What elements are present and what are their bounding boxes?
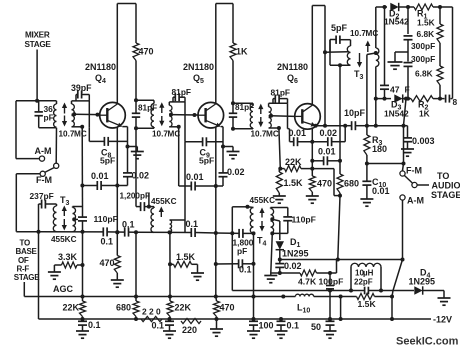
wire - riser busA to -12V bus: [340, 297, 342, 320]
wire - 0.01 bypass line Q5: [179, 185, 192, 187]
capacitor 81pF (module3 primary): [232, 103, 234, 113]
coil 10uH (top edge of trap): [351, 263, 381, 267]
resistor 680 (det return): [339, 161, 341, 174]
wire - -12V bus (y=319): [39, 318, 432, 320]
switch pole: [412, 182, 417, 187]
wire - tower3 right leg down to emitter wire: [324, 52, 326, 125]
tuning arrows T4: [261, 212, 263, 218]
svg-text:5pF: 5pF: [199, 156, 214, 166]
svg-text:100pF: 100pF: [319, 277, 344, 287]
wire - Q5 collector continuation down: [215, 127, 217, 186]
coil - secondary module3: [269, 107, 272, 128]
svg-text:0.01: 0.01: [318, 147, 336, 157]
wire - tower 1 top loop (Q4 collector feed): [117, 3, 136, 5]
svg-text:470: 470: [139, 47, 154, 57]
ground below 470 Q6: [311, 192, 313, 196]
svg-text:µH: µH: [363, 269, 374, 278]
ground below 1.5K Q6: [273, 195, 286, 197]
capacitor 81pF (top of module2 secondary): [172, 97, 174, 102]
svg-text:100: 100: [259, 321, 274, 331]
capacitor 100 (bus): [253, 319, 255, 321]
svg-text:1N295: 1N295: [282, 249, 309, 259]
resistor R3 180: [365, 124, 369, 128]
wire - Q5 emitter ground tee: [223, 146, 233, 148]
ground below C10: [360, 198, 373, 200]
coil - primary module3: [250, 106, 253, 128]
resistor R2 1K: [411, 96, 433, 102]
emitter Q6: [302, 122, 311, 125]
wire - AGC bus (y=296.5): [24, 296, 295, 298]
svg-text:F-M: F-M: [406, 166, 422, 176]
capacitor 0.1 (d): [238, 259, 240, 268]
wire - det secondary bottom riser down: [375, 67, 377, 99]
capacitor 39pF (top of secondary): [75, 95, 77, 101]
wire - 0.1 lower edge 1800 box: [216, 263, 239, 265]
svg-text:0.01: 0.01: [91, 171, 109, 181]
capacitor 0.02 (Q4 emitter): [127, 147, 129, 173]
capacitor 0.02 Q6: [327, 137, 329, 146]
T3 secondary box: [72, 207, 74, 208]
10uH 22pF parallel trap box: [349, 289, 353, 293]
wire - module2 secondary bottom down: [177, 125, 181, 129]
capacitor 5pF: [329, 40, 331, 52]
svg-text:8: 8: [453, 97, 458, 107]
svg-text:MC: MC: [74, 129, 87, 138]
emitter Q4: [107, 120, 118, 125]
coil - 1200pF module secondary (half): [170, 220, 172, 232]
wire - A-M contact down to AM det line: [402, 200, 404, 259]
wire - T4 feed from 1800 node: [231, 207, 233, 234]
capacitor 81pF (top of module3 secondary): [272, 99, 274, 104]
T4 secondary box: [271, 207, 288, 209]
capacitor 36pF: [38, 101, 40, 111]
switch arm: [404, 175, 412, 183]
svg-text:0.01: 0.01: [289, 128, 307, 138]
svg-text:0.01: 0.01: [372, 186, 390, 196]
diode D3 1N542: [394, 94, 402, 102]
ground below 0.003: [401, 148, 414, 150]
svg-text:0.02: 0.02: [284, 261, 302, 271]
svg-text:220: 220: [182, 325, 197, 335]
resistor 470 (Q4 decoupling): [114, 256, 120, 274]
transformer - 455KC (1200pF): [135, 128, 137, 206]
coil - secondary module2: [169, 105, 172, 127]
svg-text:300pF: 300pF: [411, 54, 435, 64]
svg-text:MC: MC: [266, 130, 279, 139]
svg-text:470: 470: [317, 179, 332, 189]
wire - mid node to ground: [395, 51, 408, 53]
svg-text:1.5K: 1.5K: [176, 252, 196, 262]
svg-text:0.02: 0.02: [132, 171, 150, 181]
svg-text:2N1180: 2N1180: [277, 62, 308, 72]
svg-text:0.1: 0.1: [287, 321, 300, 331]
svg-text:TO: TO: [437, 171, 449, 181]
wire - input loop left edge: [15, 101, 17, 159]
transformer T - 1st 10.7MC IF (36pF primary): [16, 100, 57, 102]
wire - T4 secondary bottom to ground: [271, 233, 273, 273]
svg-text:0.1: 0.1: [186, 219, 199, 229]
wire - AM det output line: [280, 259, 403, 261]
wire - tower1 right leg upper: [135, 4, 137, 44]
diode D2 1N542: [390, 3, 398, 11]
capacitor 100pF: [329, 273, 331, 285]
wire - Q4 collector to tower1 left leg / down continuation: [116, 127, 118, 186]
ground - right of D4: [443, 291, 445, 299]
tap T3 secondary: [72, 217, 76, 221]
resistor 1K (tower 2): [230, 43, 236, 61]
svg-text:STAGE: STAGE: [25, 40, 52, 49]
ground below 1.5K Q5: [191, 272, 204, 274]
coil - 1200pF module primary: [151, 208, 154, 232]
svg-text:2N1180: 2N1180: [183, 62, 214, 72]
capacitor 10pF: [351, 121, 353, 130]
inner column 300pF/300pF: [407, 7, 409, 34]
svg-text:AGC: AGC: [53, 284, 74, 294]
dot on AGC bus: [281, 295, 285, 299]
svg-text:10.7: 10.7: [350, 29, 366, 38]
secondary box 1200pF module: [170, 219, 186, 221]
capacitor 237pF: [39, 203, 42, 205]
capacitor 0.1 (b): [124, 228, 126, 237]
svg-text:680: 680: [116, 303, 131, 313]
wire - detector output down to F-M contact: [404, 99, 407, 126]
wire - D4 line: [252, 290, 330, 292]
capacitor C8 5pF neutralizing: [88, 128, 90, 142]
resistor 470 (tower 1): [133, 43, 139, 61]
svg-text:6.8K: 6.8K: [417, 29, 435, 39]
resistor 6.8K lower: [439, 43, 441, 66]
tuning arrow (up): [160, 211, 162, 218]
svg-text:2 2 0: 2 2 0: [142, 307, 161, 317]
resistor 22K (a): [80, 301, 86, 317]
wire - module3 secondary bottom down to bias: [277, 126, 281, 130]
svg-text:10.7: 10.7: [59, 129, 75, 138]
wire - 0.01 bypass line Q4: [80, 184, 84, 188]
svg-text:455KC: 455KC: [151, 197, 177, 206]
node 0.1 (bus b): [168, 317, 172, 321]
svg-text:0.1: 0.1: [101, 237, 114, 247]
wire - tower1 right leg to transformer2 top: [135, 61, 137, 101]
svg-text:300pF: 300pF: [411, 41, 435, 51]
capacitor 50 (bus): [328, 317, 332, 321]
wire - tower 2 top loop (Q5 collector feed): [216, 3, 233, 5]
svg-text:0.003: 0.003: [412, 136, 435, 146]
wire - 5pF box bottom down to 680: [339, 65, 341, 161]
resistor 1.5K (L10 line): [341, 296, 357, 298]
svg-text:A-M: A-M: [35, 146, 52, 156]
emitter Q5: [206, 120, 217, 125]
svg-text:455KC: 455KC: [51, 235, 77, 244]
detector bottom edge: [376, 98, 391, 100]
wire - AGC line through T3 secondary: [81, 186, 83, 207]
svg-text:pF: pF: [44, 113, 54, 123]
coil - T3 secondary: [73, 208, 76, 232]
svg-text:22K: 22K: [63, 303, 80, 313]
capacitor 0.1 (bus b): [169, 319, 171, 321]
resistor 680 (bus): [133, 301, 139, 317]
svg-text:F-M: F-M: [36, 175, 52, 185]
secondary box module1: [72, 100, 90, 102]
ground below 470 bus: [216, 319, 218, 329]
ground below 3.3K: [48, 271, 61, 273]
ground - detector mid: [388, 61, 403, 63]
capacitor 22pF (in wire inside trap): [351, 290, 365, 292]
tuning arrows T3: [63, 210, 65, 217]
resistor 4.7K: [280, 272, 300, 274]
svg-text:680: 680: [344, 179, 359, 189]
switch pole left (from 1st IF primary): [55, 128, 57, 164]
ground - T4 return: [264, 275, 277, 277]
svg-text:22pF: 22pF: [354, 277, 373, 286]
svg-text:0.1: 0.1: [152, 321, 165, 331]
svg-text:AUDIO: AUDIO: [432, 181, 460, 191]
capacitor 0.1 (c): [190, 228, 192, 237]
transformer - 2nd 10.7MC IF: [136, 99, 154, 101]
tuning arrows module2: [161, 106, 163, 113]
wire - T3 module bottom down to -12V bus: [38, 232, 40, 319]
wire - T3 bottom bus: [39, 231, 104, 233]
capacitor 81pF (module2 primary): [135, 100, 137, 113]
svg-text:1,200pF: 1,200pF: [120, 192, 151, 201]
svg-text:22K: 22K: [285, 157, 302, 167]
wire - Q6 collector continuation down: [311, 128, 313, 142]
wire - AGC stub to R-F stage: [23, 282, 25, 297]
capacitor 0.01 Q6b: [323, 156, 325, 165]
wire - 1800 box left edge down to D4 line: [231, 233, 233, 290]
diode D1 1N295: [276, 241, 284, 249]
capacitor 0.1 (bus a): [82, 319, 84, 321]
resistor 1.5K (Q5 bias): [170, 263, 174, 265]
svg-text:0.02: 0.02: [320, 128, 338, 138]
wire - module left edge continues to bus: [135, 232, 137, 296]
wire - 680 bottom down to AM det line: [338, 196, 340, 260]
svg-text:0.01: 0.01: [186, 172, 204, 182]
coil - T4 primary: [248, 206, 254, 209]
capacitor 1200pF: [136, 206, 141, 208]
wire - 0.01 second line Q6: [312, 160, 323, 162]
svg-text:F: F: [405, 85, 410, 95]
wire - R3 bottom to FM switch line: [367, 163, 404, 165]
coil - T3 primary: [53, 206, 56, 232]
capacitor 0.02 (Q5 emitter): [222, 147, 224, 173]
capacitor 110pF (T3): [78, 216, 87, 218]
capacitor 0.003: [404, 125, 408, 127]
wire - Q4 emitter ground tee: [128, 146, 138, 148]
coil - T4 secondary: [271, 209, 274, 234]
capacitor 47uF (inner riser): [383, 5, 387, 9]
svg-text:4.7K: 4.7K: [298, 277, 317, 287]
wire - det secondary top riser: [375, 7, 377, 48]
svg-text:50: 50: [311, 322, 321, 332]
tuning arrows module1: [64, 107, 66, 114]
resistor R1 1.5K: [414, 4, 433, 10]
wire - AGC column: [82, 232, 84, 265]
ground - below 470 Q4: [116, 273, 118, 280]
capacitor 0.02 (AM det): [279, 260, 281, 264]
svg-text:0.1: 0.1: [122, 220, 135, 230]
capacitor 0.1 (bus c): [279, 317, 283, 321]
wire - Q5 line to 1.5K junction: [168, 230, 172, 234]
coil - detector primary: [347, 46, 350, 65]
svg-text:10.7: 10.7: [251, 130, 267, 139]
switch contact F-M (left): [40, 171, 45, 176]
tap module3 to Q6 base: [269, 114, 273, 118]
coil - detector secondary: [376, 48, 379, 67]
tuning arrows module3: [260, 108, 262, 114]
coil - primary module2: [151, 104, 154, 128]
wire - 22K line to 680 bottom: [312, 168, 334, 170]
capacitor 300pF lower: [407, 52, 409, 62]
svg-text:110pF: 110pF: [94, 214, 118, 224]
resistor 6.8K upper (right column): [439, 7, 441, 24]
svg-text:1.5K: 1.5K: [417, 18, 435, 28]
capacitor 0.1 (a): [102, 227, 104, 236]
capacitor 0.01 Q4: [96, 181, 98, 190]
capacitor 110pF (T4): [283, 216, 292, 218]
capacitor 0.01 Q6a: [293, 137, 295, 146]
svg-text:STAGE: STAGE: [431, 190, 460, 200]
svg-text:STAGE: STAGE: [14, 273, 40, 282]
svg-text:0.02: 0.02: [227, 167, 245, 177]
svg-text:2N1180: 2N1180: [85, 62, 116, 72]
svg-text:1.5K: 1.5K: [284, 178, 304, 188]
resistor 220 (in -12V bus b): [181, 318, 201, 323]
tap T4 secondary to D1: [270, 217, 274, 221]
coil - primary of 1st IF transformer: [54, 104, 57, 127]
svg-text:10pF: 10pF: [344, 108, 366, 118]
svg-text:81pF: 81pF: [271, 88, 291, 98]
transistor Q5 2N1180: [198, 102, 224, 128]
wire - 4.7K right up to AM line: [336, 260, 338, 274]
wire - F-M contact to T3 bottom: [16, 173, 40, 175]
wire - 5pF line from tower3: [325, 51, 348, 54]
switch contact A-M: [400, 195, 405, 200]
wire - Q6 emitter to 10pF: [345, 125, 351, 127]
svg-text:180: 180: [372, 144, 387, 154]
wire - pole to audio stage: [417, 184, 429, 186]
wire - Q6 emitter line right: [316, 125, 346, 127]
capacitor C9 5pF neutralizing: [184, 129, 186, 142]
svg-text:pF: pF: [237, 246, 247, 256]
coil - secondary of 1st IF transformer: [72, 104, 75, 127]
capacitor 300pF upper: [404, 35, 413, 37]
svg-text:455KC: 455KC: [250, 196, 276, 205]
resistor 470 (bus): [214, 301, 220, 317]
wire - T4 column to bus: [253, 233, 255, 263]
svg-text:81pF: 81pF: [138, 104, 157, 113]
svg-text:1K: 1K: [236, 47, 248, 57]
tuning arrows detector transformer: [359, 53, 361, 64]
secondary box module3: [269, 102, 288, 104]
capacitor 0.01 Q5: [190, 182, 192, 191]
svg-text:110pF: 110pF: [292, 215, 316, 225]
svg-text:81pF: 81pF: [172, 87, 192, 97]
svg-text:5pF: 5pF: [331, 23, 348, 33]
resistor 22K (Q6 base bias): [280, 168, 284, 170]
tap - detector secondary to R3 line: [374, 51, 378, 55]
svg-text:MIXER: MIXER: [25, 31, 50, 40]
wire - module1 secondary bottom down: [80, 125, 84, 129]
svg-text:A-M: A-M: [407, 196, 424, 206]
detector top edge: [376, 6, 387, 8]
svg-text:470: 470: [220, 303, 235, 313]
capacitor 8 (bottom right): [445, 95, 447, 103]
svg-text:R-F: R-F: [17, 264, 30, 273]
svg-text:5pF: 5pF: [100, 156, 115, 166]
svg-text:0.1: 0.1: [88, 320, 101, 330]
svg-text:SeekIC.com: SeekIC.com: [396, 336, 459, 348]
svg-text:1K: 1K: [419, 109, 430, 119]
svg-text:470: 470: [100, 258, 115, 268]
svg-text:-12V: -12V: [433, 315, 452, 325]
svg-text:0.1: 0.1: [239, 265, 252, 275]
transistor Q6 2N1180: [295, 104, 321, 130]
wire - top of 1800pF box: [216, 232, 233, 234]
svg-text:6.8K: 6.8K: [415, 69, 433, 79]
resistor 470 (Q6): [311, 169, 313, 176]
capacitor 1800pF: [238, 229, 240, 238]
svg-text:TO: TO: [20, 239, 30, 248]
transistor Q4 2N1180: [100, 102, 126, 128]
node - secondary tap to Q4 base: [72, 112, 76, 116]
secondary box module2: [169, 101, 185, 103]
svg-text:47: 47: [390, 85, 400, 95]
wire - tower 3 top loop (Q6 collector feed): [312, 5, 325, 7]
diode D4 1N295: [381, 290, 414, 292]
wire - AM det ground line: [271, 272, 280, 274]
resistor 1.5K (Q6 bias to gnd): [276, 172, 282, 193]
tap module2 to Q5 base: [169, 113, 173, 117]
svg-text:10.7: 10.7: [152, 130, 168, 139]
wire - across 1200pF module bottom: [136, 231, 170, 233]
svg-text:1N542: 1N542: [384, 17, 409, 27]
resistor 22K (b): [167, 301, 173, 317]
svg-text:39pF: 39pF: [71, 83, 92, 93]
wire - x185 from C9 down to 455 secondary: [184, 142, 186, 220]
capacitor C10 0.01: [366, 164, 368, 182]
svg-text:3.3K: 3.3K: [58, 252, 78, 262]
svg-text:1.5K: 1.5K: [358, 299, 377, 309]
switch contact F-M: [400, 171, 405, 176]
resistor 220 (in -12V bus a): [141, 316, 162, 321]
switch arm left: [45, 168, 54, 173]
svg-text:1N295: 1N295: [409, 277, 436, 287]
detector right edge: [452, 7, 454, 99]
coil L10: [295, 294, 313, 296]
wire - 0.01/0.02 line Q6: [289, 129, 291, 142]
svg-text:22K: 22K: [175, 303, 192, 313]
resistor 3.3K: [77, 264, 83, 266]
transformer - 3rd 10.7MC IF: [233, 102, 253, 104]
